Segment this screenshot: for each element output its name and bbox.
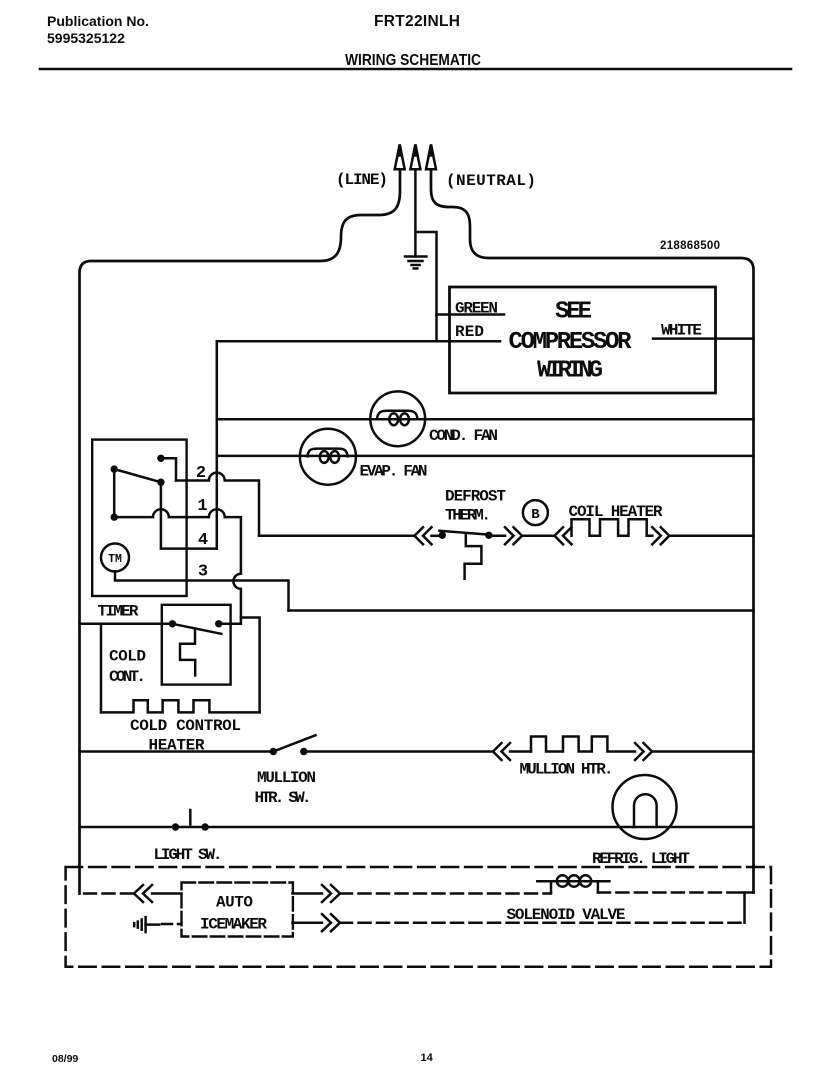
svg-text:COLD CONTROL: COLD CONTROL xyxy=(130,717,241,735)
svg-text:COMPRESSOR: COMPRESSOR xyxy=(509,329,633,356)
svg-text:TM: TM xyxy=(108,553,122,566)
svg-text:COND. FAN: COND. FAN xyxy=(429,427,498,445)
svg-text:3: 3 xyxy=(198,563,208,582)
svg-text:B: B xyxy=(531,507,540,523)
svg-text:GREEN: GREEN xyxy=(455,300,498,318)
svg-text:ICEMAKER: ICEMAKER xyxy=(200,916,267,934)
svg-text:CONT.: CONT. xyxy=(109,668,146,686)
svg-text:HTR. SW.: HTR. SW. xyxy=(255,789,312,807)
svg-text:218868500: 218868500 xyxy=(660,240,720,252)
svg-text:EVAP. FAN: EVAP. FAN xyxy=(360,463,428,481)
svg-text:MULLION: MULLION xyxy=(257,769,316,787)
svg-text:SOLENOID VALVE: SOLENOID VALVE xyxy=(507,906,626,924)
svg-text:14: 14 xyxy=(421,1052,434,1064)
svg-text:2: 2 xyxy=(196,464,206,483)
svg-text:THERM.: THERM. xyxy=(445,507,491,525)
svg-text:1: 1 xyxy=(197,497,207,516)
svg-text:FRT22INLH: FRT22INLH xyxy=(374,13,460,30)
svg-text:WIRING SCHEMATIC: WIRING SCHEMATIC xyxy=(345,52,481,69)
svg-text:REFRIG. LIGHT: REFRIG. LIGHT xyxy=(592,850,690,868)
svg-text:5995325122: 5995325122 xyxy=(47,30,125,46)
svg-text:08/99: 08/99 xyxy=(52,1053,78,1065)
svg-text:WIRING: WIRING xyxy=(537,358,603,385)
svg-text:DEFROST: DEFROST xyxy=(445,488,506,506)
svg-text:SEE: SEE xyxy=(555,299,592,326)
svg-text:COIL HEATER: COIL HEATER xyxy=(569,503,663,521)
svg-text:TIMER: TIMER xyxy=(98,603,139,621)
svg-text:MULLION HTR.: MULLION HTR. xyxy=(520,761,614,779)
svg-text:(LINE): (LINE) xyxy=(336,171,388,189)
svg-text:Publication No.: Publication No. xyxy=(47,13,149,29)
svg-text:AUTO: AUTO xyxy=(216,894,253,912)
svg-text:LIGHT SW.: LIGHT SW. xyxy=(154,846,223,864)
svg-text:HEATER: HEATER xyxy=(149,737,205,755)
svg-text:RED: RED xyxy=(455,323,484,341)
svg-text:WHITE: WHITE xyxy=(661,322,702,340)
svg-text:COLD: COLD xyxy=(109,648,146,666)
svg-text:4: 4 xyxy=(198,531,208,550)
svg-text:(NEUTRAL): (NEUTRAL) xyxy=(446,172,536,190)
